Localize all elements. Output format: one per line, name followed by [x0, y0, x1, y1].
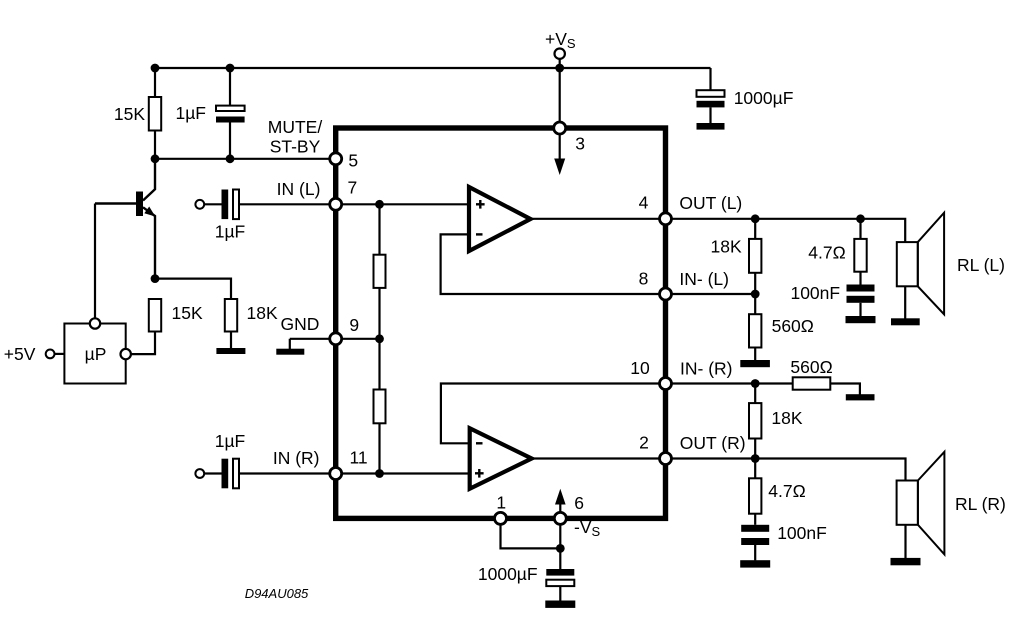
capacitor C7 1000uF bottom — [546, 569, 574, 576]
svg-text:ST-BY: ST-BY — [270, 137, 321, 157]
node junction inR — [751, 379, 760, 388]
resistor R9 560ohm R horizontal — [793, 377, 831, 389]
svg-text:IN- (L): IN- (L) — [679, 269, 729, 289]
pin 1 — [495, 512, 507, 524]
internal resistor R5 — [378, 339, 380, 390]
svg-text:RL (L): RL (L) — [957, 255, 1005, 275]
wire drop to 15K pull-up — [154, 68, 156, 97]
svg-text:RL (R): RL (R) — [955, 494, 1006, 514]
node junction rail left — [151, 64, 160, 73]
node junction pin11 — [375, 469, 384, 478]
wire mute line to pin 5 — [155, 158, 336, 160]
node junction pin9 — [375, 334, 384, 343]
node junction below pin6 — [556, 544, 565, 553]
uP box U2 — [64, 324, 125, 384]
svg-text:1µF: 1µF — [215, 221, 246, 241]
terminal +5V — [46, 350, 55, 359]
svg-text:4.7Ω: 4.7Ω — [768, 481, 805, 501]
ground under 560 L — [740, 360, 770, 367]
ground under 18K — [216, 348, 245, 354]
speaker RL(L) — [897, 242, 918, 286]
wire pin1 to pin6 junction — [501, 518, 561, 548]
svg-text:1: 1 — [496, 493, 506, 513]
ground GND pin9 — [289, 339, 291, 349]
svg-text:IN- (R): IN- (R) — [680, 359, 732, 379]
wire IN-(R) — [666, 382, 793, 384]
svg-text:1000µF: 1000µF — [734, 88, 794, 108]
svg-text:µP: µP — [85, 344, 107, 364]
svg-text:1000µF: 1000µF — [478, 564, 538, 584]
pin 9 — [330, 333, 342, 345]
node junction outR — [751, 454, 760, 463]
resistor R1 15K pull-up — [149, 97, 161, 131]
pin 4 — [660, 213, 672, 225]
capacitor C5 100nF R — [741, 525, 769, 532]
ground under 1000uF bottom — [545, 601, 575, 608]
svg-text:OUT (L): OUT (L) — [679, 193, 742, 213]
wire emitter junction to 18K — [155, 279, 231, 299]
wire 15K to mute line — [154, 131, 156, 159]
speaker RL(R) — [897, 481, 918, 525]
svg-text:1µF: 1µF — [215, 431, 246, 451]
svg-text:GND: GND — [281, 314, 320, 334]
pin 8 — [660, 288, 672, 300]
capacitor C2 1uF IN(L) — [204, 203, 221, 205]
svg-text:11: 11 — [350, 448, 368, 468]
pin 11 — [330, 468, 342, 480]
wire 18K to ground — [230, 332, 232, 349]
node junction mute-cap — [226, 154, 235, 163]
svg-text:18K: 18K — [247, 303, 278, 323]
wire pin7 to opamp — [336, 203, 469, 205]
svg-text:15K: 15K — [172, 303, 203, 323]
ground after 560 R — [846, 394, 875, 400]
capacitor C4 100nF L — [847, 285, 875, 292]
resistor R3 18K — [225, 299, 237, 332]
resistor R8 4.7ohm L — [859, 219, 861, 239]
wire IN-(L) — [666, 293, 756, 295]
node junction pin7 — [375, 200, 384, 209]
ground under 100nF L — [846, 316, 876, 323]
node junction emitter — [151, 274, 160, 283]
svg-text:3: 3 — [575, 133, 585, 153]
wire OUT(L) — [666, 219, 906, 242]
wire base to uP — [94, 204, 96, 319]
resistor R6 18K feedback L — [754, 219, 756, 239]
svg-text:560Ω: 560Ω — [790, 357, 832, 377]
wire uP out to 15K — [131, 332, 155, 355]
terminal IN(L) input — [195, 200, 204, 209]
resistor R2 15K — [149, 299, 161, 332]
ground under speaker R — [891, 558, 921, 565]
svg-text:18K: 18K — [711, 237, 742, 257]
svg-text:5: 5 — [348, 150, 358, 170]
wire pin9 gnd line — [290, 338, 380, 340]
svg-text:4: 4 — [639, 193, 649, 213]
wire pin6 column — [559, 518, 561, 569]
pin 5 — [330, 153, 342, 165]
node junction mute-collector — [151, 154, 160, 163]
node junction inL — [751, 290, 760, 299]
svg-text:15K: 15K — [114, 104, 145, 124]
resistor R7 560ohm L — [754, 294, 756, 314]
svg-text:+5V: +5V — [4, 344, 36, 364]
pin 6 arrow — [559, 503, 561, 513]
svg-text:18K: 18K — [771, 408, 802, 428]
node junction on rail at +VS — [555, 64, 564, 73]
svg-text:8: 8 — [639, 269, 649, 289]
svg-text:IN (R): IN (R) — [273, 448, 320, 468]
terminal IN(R) input — [195, 469, 204, 478]
transistor Q1 — [95, 159, 155, 279]
node junction rail at cap — [226, 64, 235, 73]
resistor R10 18K feedback R — [754, 384, 756, 404]
svg-text:6: 6 — [574, 493, 584, 513]
pin 3 — [554, 122, 566, 134]
wire +VS stub — [559, 59, 561, 124]
wire feedback L — [441, 234, 666, 294]
svg-text:560Ω: 560Ω — [772, 316, 814, 336]
resistor R11 4.7ohm R — [754, 459, 756, 479]
pin 6 — [554, 512, 566, 524]
svg-text:9: 9 — [349, 315, 359, 335]
pin 3 arrow — [559, 134, 561, 159]
wire output L — [531, 218, 666, 220]
svg-text:D94AU085: D94AU085 — [245, 586, 309, 601]
svg-text:1µF: 1µF — [175, 103, 206, 123]
svg-text:IN (L): IN (L) — [277, 179, 321, 199]
capacitor C6 1000uF top — [709, 68, 711, 90]
svg-text:7: 7 — [348, 178, 358, 198]
wire pin11 to opamp — [336, 472, 470, 474]
op-amp U1B — [470, 428, 532, 489]
ground under 100nF R — [740, 560, 770, 567]
node junction outL-4.7 — [856, 214, 865, 223]
wire output R — [532, 457, 666, 459]
svg-text:100nF: 100nF — [777, 523, 827, 543]
wire OUT(R) — [666, 459, 906, 481]
svg-text:10: 10 — [630, 358, 650, 378]
capacitor C3 1uF IN(R) — [204, 472, 221, 474]
wire top supply rail — [155, 67, 711, 69]
internal resistor R4 — [378, 204, 380, 254]
svg-text:100nF: 100nF — [790, 283, 840, 303]
pin 10 — [660, 378, 672, 390]
svg-text:4.7Ω: 4.7Ω — [808, 243, 845, 263]
svg-text:MUTE/: MUTE/ — [268, 117, 323, 137]
op-amp U1A — [469, 187, 531, 251]
pin 7 — [330, 198, 342, 210]
pin 2 — [660, 453, 672, 465]
IC box U1 — [336, 128, 666, 518]
ground under speaker L — [891, 318, 920, 325]
svg-text:OUT (R): OUT (R) — [680, 433, 746, 453]
wire feedback R — [441, 384, 666, 444]
terminal +VS — [555, 49, 565, 59]
capacitor C1 1uF mute — [229, 68, 231, 106]
svg-text:2: 2 — [639, 433, 649, 453]
node junction outL-18K — [751, 214, 760, 223]
